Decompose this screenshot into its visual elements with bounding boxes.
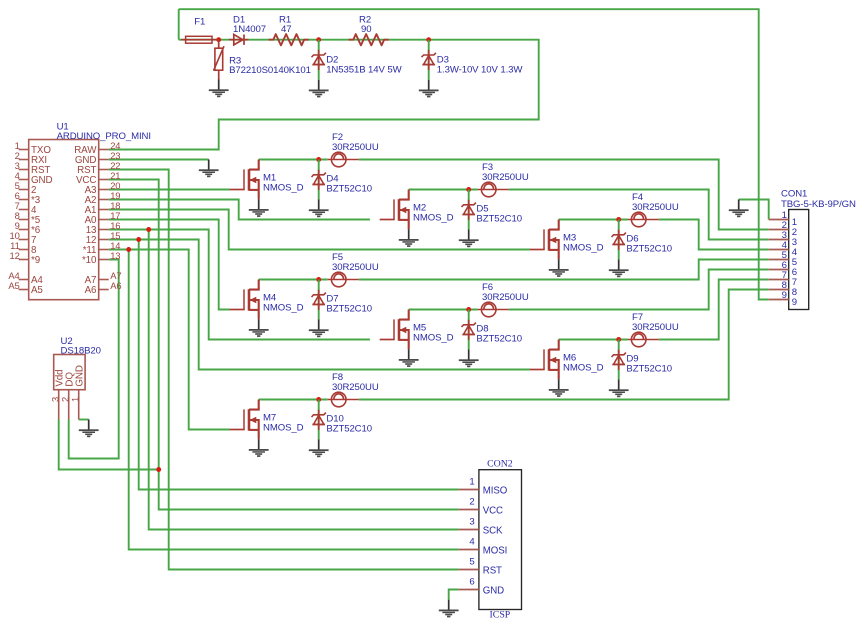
svg-text:BZT52C10: BZT52C10 [326, 423, 372, 434]
svg-text:1: 1 [69, 397, 80, 402]
svg-text:GND: GND [74, 365, 85, 386]
svg-text:2: 2 [469, 497, 474, 508]
svg-text:30R250UU: 30R250UU [332, 382, 379, 393]
svg-text:A6: A6 [85, 285, 97, 296]
svg-text:47: 47 [281, 24, 291, 35]
svg-text:*10: *10 [82, 255, 97, 266]
svg-text:NMOS_D: NMOS_D [413, 213, 454, 224]
svg-text:MOSI: MOSI [483, 546, 507, 557]
svg-text:1.3W-10V 10V 1.3W: 1.3W-10V 10V 1.3W [437, 65, 524, 76]
svg-text:9: 9 [792, 297, 797, 308]
svg-text:*9: *9 [31, 255, 40, 266]
svg-text:F1: F1 [194, 16, 205, 27]
svg-text:TBG-5-KB-9P/GN: TBG-5-KB-9P/GN [781, 199, 856, 210]
svg-text:1N4007: 1N4007 [233, 24, 266, 35]
svg-text:A5: A5 [31, 285, 43, 296]
svg-text:9: 9 [782, 290, 787, 301]
svg-text:BZT52C10: BZT52C10 [326, 183, 372, 194]
svg-text:12: 12 [9, 250, 19, 261]
svg-text:ICSP: ICSP [490, 610, 511, 621]
svg-text:NMOS_D: NMOS_D [413, 333, 454, 344]
svg-text:BZT52C10: BZT52C10 [476, 333, 522, 344]
svg-text:A6: A6 [110, 280, 121, 291]
svg-text:4: 4 [469, 537, 475, 548]
svg-text:1N5351B 14V 5W: 1N5351B 14V 5W [326, 65, 402, 76]
svg-text:CON2: CON2 [487, 458, 513, 469]
svg-text:GND: GND [483, 586, 504, 597]
svg-text:30R250UU: 30R250UU [482, 172, 529, 183]
svg-text:NMOS_D: NMOS_D [563, 363, 604, 374]
svg-text:30R250UU: 30R250UU [632, 322, 679, 333]
svg-text:MISO: MISO [483, 486, 508, 497]
svg-text:SCK: SCK [483, 526, 503, 537]
svg-text:BZT52C10: BZT52C10 [626, 243, 672, 254]
svg-text:ARDUINO_PRO_MINI: ARDUINO_PRO_MINI [57, 131, 151, 142]
svg-text:3: 3 [469, 517, 474, 528]
svg-text:DS18B20: DS18B20 [61, 346, 101, 357]
svg-text:30R250UU: 30R250UU [632, 202, 679, 213]
svg-text:RST: RST [483, 566, 502, 577]
svg-text:6: 6 [469, 577, 474, 588]
svg-text:NMOS_D: NMOS_D [563, 243, 604, 254]
svg-text:BZT52C10: BZT52C10 [476, 213, 522, 224]
svg-text:1: 1 [469, 477, 474, 488]
svg-text:B72210S0140K101: B72210S0140K101 [229, 65, 311, 76]
svg-text:A5: A5 [8, 280, 19, 291]
svg-text:VCC: VCC [483, 506, 503, 517]
svg-text:BZT52C10: BZT52C10 [626, 363, 672, 374]
svg-text:NMOS_D: NMOS_D [263, 183, 304, 194]
svg-text:30R250UU: 30R250UU [332, 142, 379, 153]
svg-text:30R250UU: 30R250UU [482, 292, 529, 303]
svg-text:13: 13 [110, 250, 120, 261]
svg-text:30R250UU: 30R250UU [332, 262, 379, 273]
svg-text:NMOS_D: NMOS_D [263, 303, 304, 314]
svg-text:NMOS_D: NMOS_D [263, 423, 304, 434]
svg-text:90: 90 [361, 24, 371, 35]
svg-text:BZT52C10: BZT52C10 [326, 303, 372, 314]
svg-text:5: 5 [469, 557, 474, 568]
